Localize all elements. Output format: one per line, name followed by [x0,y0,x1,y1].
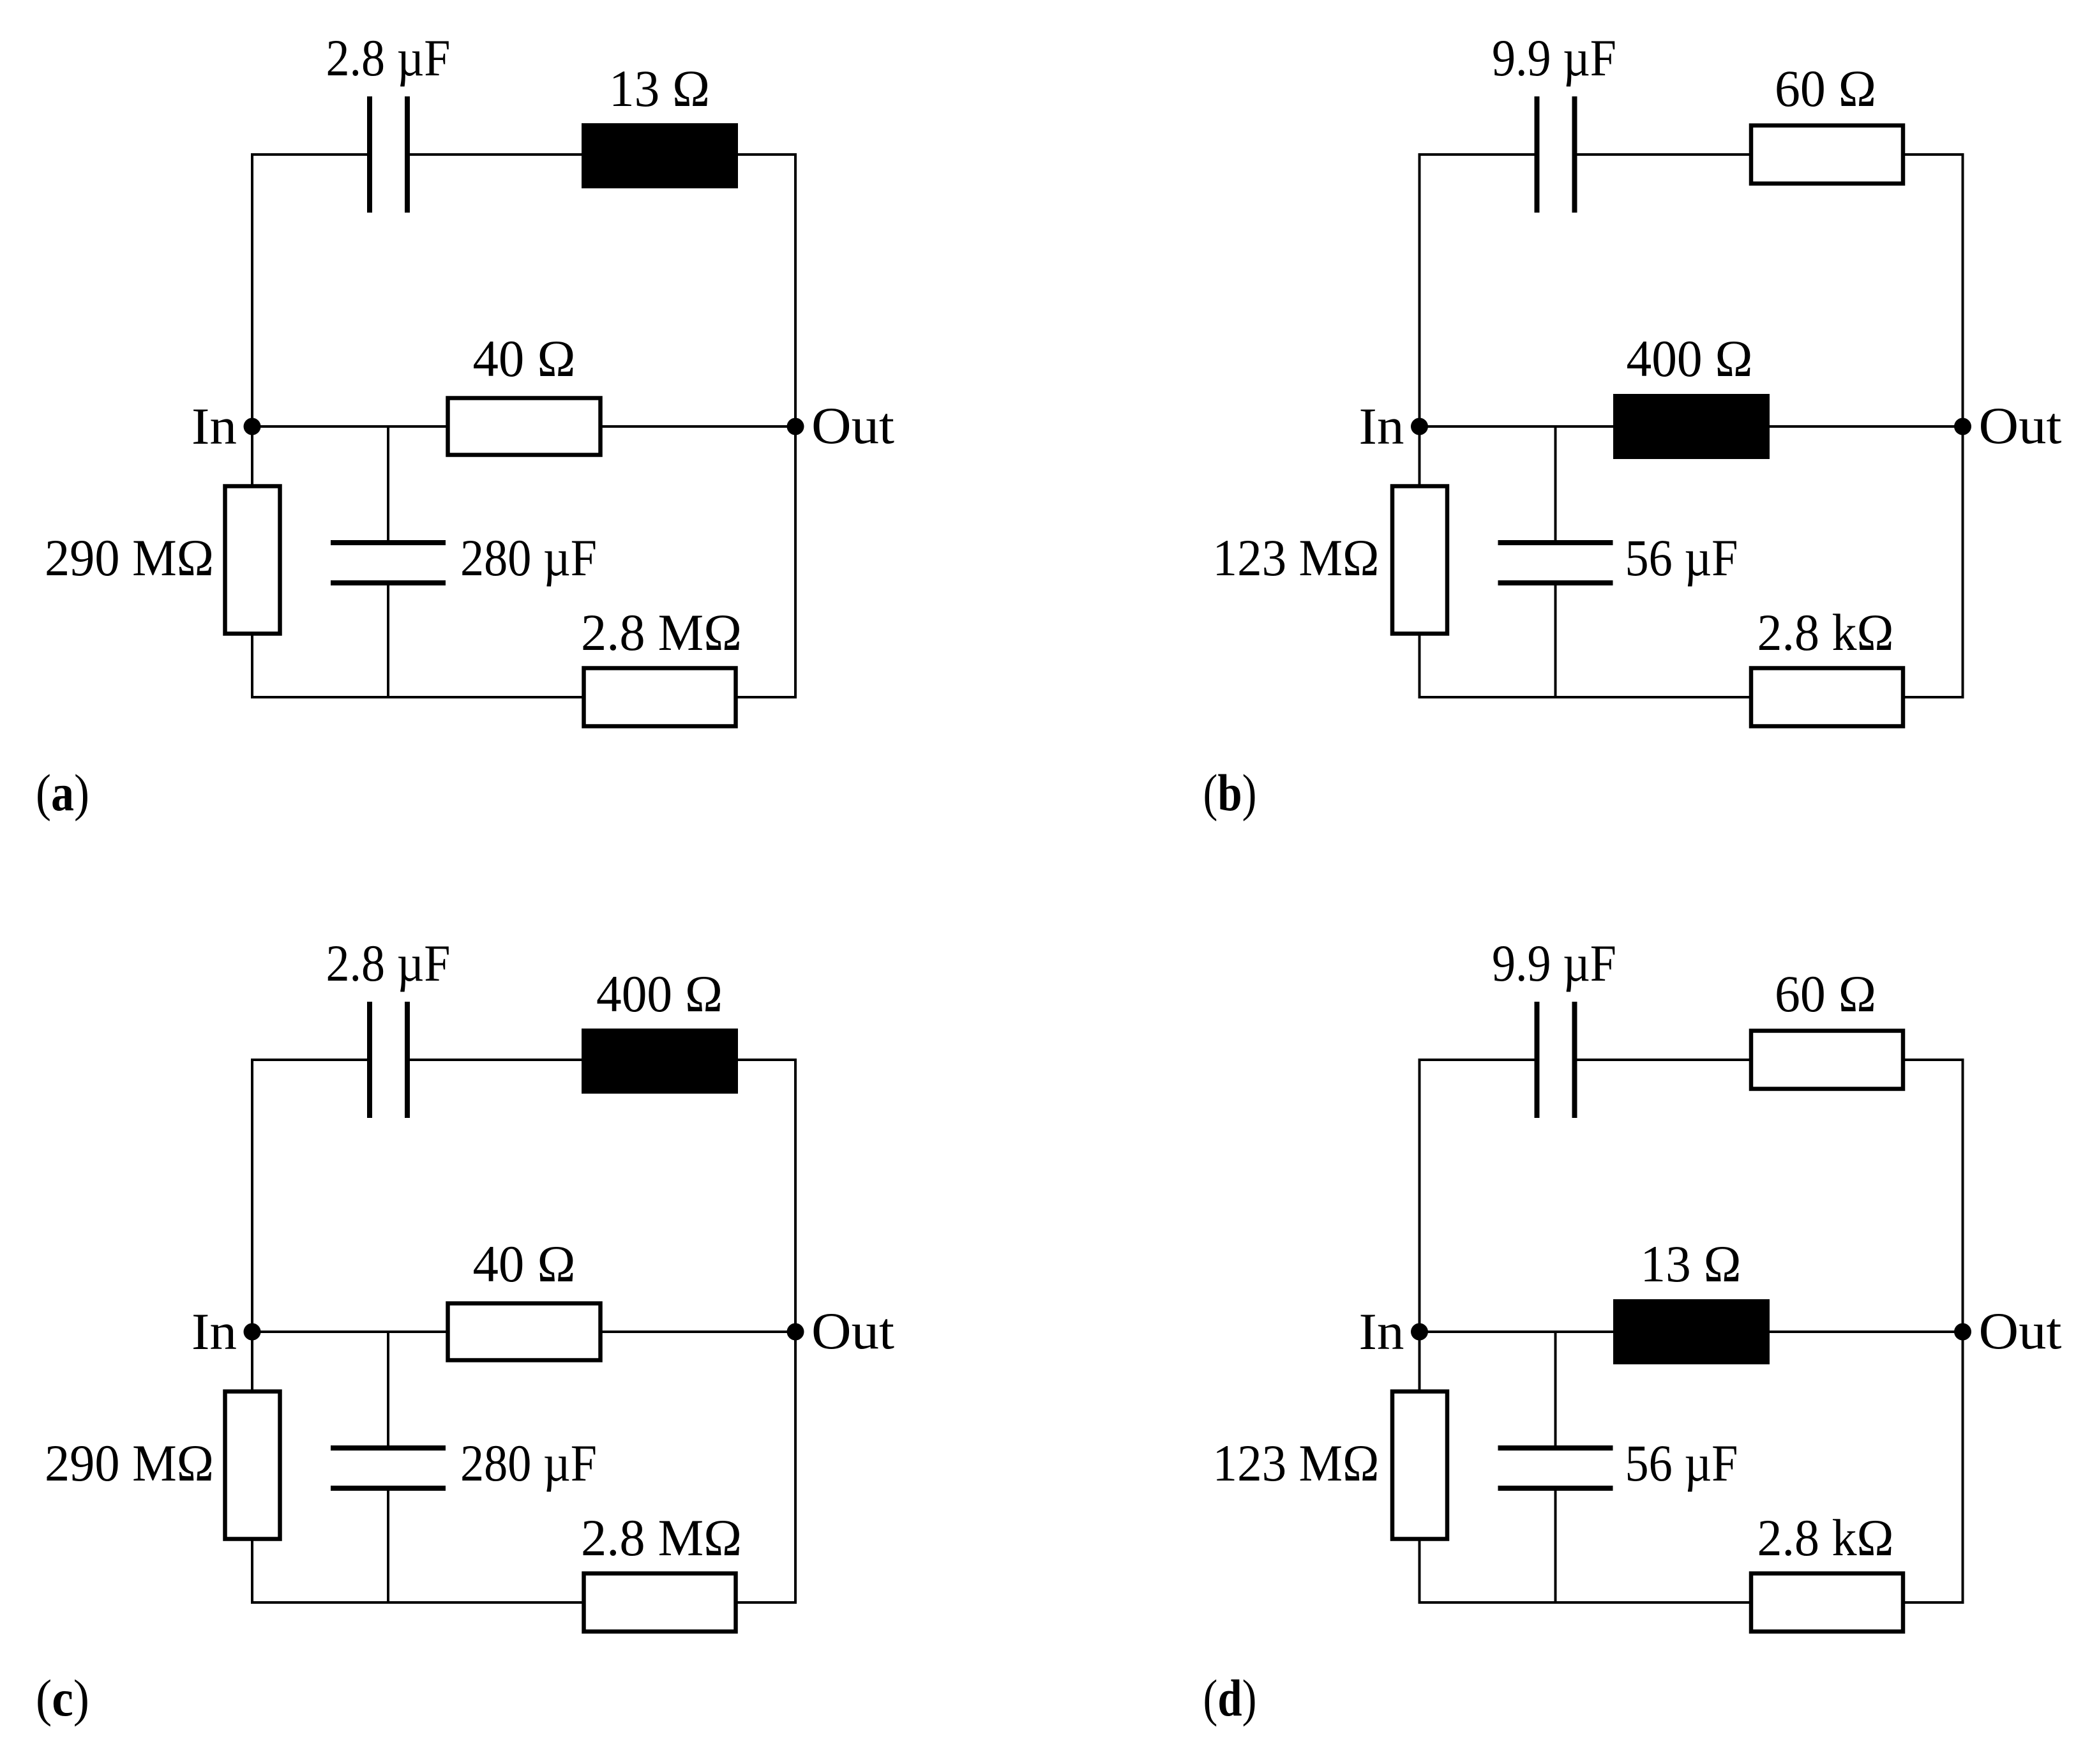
wire: bottom rail, right segment [1904,696,1963,698]
resistor 2.8 kΩ (bottom branch) [1751,1574,1903,1632]
capacitor 280 µF (shunt): top plate [331,540,446,545]
svg-text:(c): (c) [36,1669,89,1727]
wire: bottom rail, left segment [1418,696,1750,698]
wire: top rail, top resistor to Out rail [737,153,797,156]
resistor 290 MΩ (left shunt, vertical) [225,1392,280,1539]
wire: left vertical In rail, top section [1418,153,1421,486]
wire: top rail, capacitor to top resistor [1576,1059,1750,1061]
svg-text:290 MΩ: 290 MΩ [45,529,214,587]
svg-text:Out: Out [1979,396,2062,455]
resistor 60 Ω (top branch) [1751,1031,1903,1089]
wire: shunt capacitor stem, upper [387,426,389,541]
capacitor 2.8 µF: right plate [405,96,410,213]
svg-text:(b): (b) [1203,764,1257,822]
capacitor 56 µF: bottom plate [1498,1486,1613,1491]
wire: right vertical Out rail [1962,155,1964,698]
resistor 400 Ω (top branch, filled) [582,1029,738,1094]
svg-text:Out: Out [811,396,894,455]
svg-text:40 Ω: 40 Ω [473,329,576,388]
wire: top rail, top resistor to Out rail [737,1059,797,1061]
wire: top rail, left segment to capacitor [1418,153,1536,156]
svg-text:Out: Out [1979,1302,2062,1360]
wire: middle rail, In node to middle resistor [1420,1331,1615,1333]
svg-text:56 µF: 56 µF [1625,1434,1738,1492]
svg-text:In: In [192,397,237,455]
resistor 13 Ω (middle branch, filled) [1613,1299,1770,1364]
capacitor 9.9 µF: right plate [1572,96,1577,213]
wire: shunt capacitor stem, lower [1554,1489,1557,1602]
svg-text:400 Ω: 400 Ω [1627,329,1753,388]
svg-text:(a): (a) [36,764,89,822]
wire: left vertical below 290 MΩ resistor [251,1539,253,1602]
capacitor 9.9 µF: right plate [1572,1002,1577,1118]
resistor 400 Ω (middle branch, filled) [1613,394,1770,459]
svg-text:123 MΩ: 123 MΩ [1213,529,1380,587]
wire: left vertical In rail, top section [251,153,253,486]
svg-text:280 µF: 280 µF [460,529,597,587]
wire: bottom rail, left segment [251,1601,583,1604]
wire: middle rail, middle resistor to Out node [601,1331,795,1333]
svg-text:13 Ω: 13 Ω [609,59,710,117]
wire: bottom rail, left segment [1418,1601,1750,1604]
svg-text:290 MΩ: 290 MΩ [45,1434,214,1492]
wire: left vertical below 290 MΩ resistor [251,634,253,697]
svg-text:40 Ω: 40 Ω [473,1235,576,1293]
capacitor 2.8 µF: right plate [405,1002,410,1118]
node In (junction dot) [244,1323,261,1341]
svg-text:13 Ω: 13 Ω [1641,1235,1742,1293]
svg-text:In: In [1359,397,1404,455]
wire: middle rail, In node to middle resistor [252,425,448,428]
capacitor 56 µF (shunt): top plate [1498,1445,1613,1451]
wire: top rail, left segment to capacitor [1418,1059,1536,1061]
wire: middle rail, middle resistor to Out node [1768,425,1963,428]
node Out (junction dot) [1954,418,1971,435]
node Out (junction dot) [787,418,804,435]
svg-text:60 Ω: 60 Ω [1775,965,1876,1023]
resistor 13 Ω (top branch, filled) [582,123,738,188]
svg-text:2.8 µF: 2.8 µF [326,29,451,87]
capacitor 280 µF: bottom plate [331,580,446,585]
svg-text:2.8 MΩ: 2.8 MΩ [581,1509,742,1567]
wire: bottom rail, left segment [251,696,583,698]
capacitor 56 µF: bottom plate [1498,580,1613,585]
resistor 290 MΩ (left shunt, vertical) [225,486,280,634]
capacitor 2.8 µF (series, top branch): left plate [367,1002,372,1118]
capacitor 9.9 µF (series, top branch): left plate [1535,96,1540,213]
wire: top rail, top resistor to Out rail [1904,153,1964,156]
svg-text:2.8 µF: 2.8 µF [326,934,451,992]
svg-text:In: In [1359,1302,1404,1361]
svg-text:400 Ω: 400 Ω [596,965,723,1023]
svg-text:2.8 kΩ: 2.8 kΩ [1757,603,1894,661]
node Out (junction dot) [787,1323,804,1341]
wire: bottom rail, right segment [1904,1601,1963,1604]
svg-text:Out: Out [811,1302,894,1360]
resistor 123 MΩ (left shunt, vertical) [1392,486,1447,634]
wire: right vertical Out rail [794,155,797,698]
wire: right vertical Out rail [1962,1060,1964,1604]
wire: shunt capacitor stem, lower [387,584,389,697]
resistor 40 Ω (middle branch) [448,1304,601,1361]
wire: middle rail, middle resistor to Out node [601,425,795,428]
wire: left vertical below 123 MΩ resistor [1418,634,1421,697]
wire: bottom rail, right segment [737,1601,795,1604]
svg-text:(d): (d) [1203,1669,1257,1727]
wire: shunt capacitor stem, upper [387,1332,389,1447]
wire: shunt capacitor stem, lower [1554,584,1557,697]
svg-text:56 µF: 56 µF [1625,529,1738,587]
svg-text:280 µF: 280 µF [460,1434,597,1492]
svg-text:2.8 MΩ: 2.8 MΩ [581,603,742,661]
wire: middle rail, In node to middle resistor [252,1331,448,1333]
wire: top rail, capacitor to top resistor [409,153,583,156]
wire: left vertical below 123 MΩ resistor [1418,1539,1421,1602]
wire: left vertical In rail, top section [251,1059,253,1391]
wire: top rail, left segment to capacitor [251,1059,368,1061]
svg-text:9.9 µF: 9.9 µF [1492,29,1616,87]
resistor 40 Ω (middle branch) [448,398,601,455]
wire: left vertical In rail, top section [1418,1059,1421,1391]
node In (junction dot) [244,418,261,435]
resistor 2.8 MΩ (bottom branch) [584,668,736,727]
svg-text:123 MΩ: 123 MΩ [1213,1434,1380,1492]
svg-text:9.9 µF: 9.9 µF [1492,934,1616,992]
wire: middle rail, middle resistor to Out node [1768,1331,1963,1333]
resistor 2.8 MΩ (bottom branch) [584,1574,736,1632]
svg-text:60 Ω: 60 Ω [1775,59,1876,117]
capacitor 280 µF: bottom plate [331,1486,446,1491]
capacitor 2.8 µF (series, top branch): left plate [367,96,372,213]
wire: top rail, left segment to capacitor [251,153,368,156]
wire: top rail, top resistor to Out rail [1904,1059,1964,1061]
wire: top rail, capacitor to top resistor [1576,153,1750,156]
resistor 123 MΩ (left shunt, vertical) [1392,1392,1447,1539]
wire: bottom rail, right segment [737,696,795,698]
capacitor 280 µF (shunt): top plate [331,1445,446,1451]
wire: top rail, capacitor to top resistor [409,1059,583,1061]
resistor 60 Ω (top branch) [1751,126,1903,184]
node In (junction dot) [1411,1323,1428,1341]
capacitor 9.9 µF (series, top branch): left plate [1535,1002,1540,1118]
resistor 2.8 kΩ (bottom branch) [1751,668,1903,727]
wire: shunt capacitor stem, upper [1554,426,1557,541]
node Out (junction dot) [1954,1323,1971,1341]
wire: right vertical Out rail [794,1060,797,1604]
wire: shunt capacitor stem, upper [1554,1332,1557,1447]
svg-text:2.8 kΩ: 2.8 kΩ [1757,1509,1894,1567]
svg-text:In: In [192,1302,237,1361]
capacitor 56 µF (shunt): top plate [1498,540,1613,545]
wire: shunt capacitor stem, lower [387,1489,389,1602]
wire: middle rail, In node to middle resistor [1420,425,1615,428]
node In (junction dot) [1411,418,1428,435]
